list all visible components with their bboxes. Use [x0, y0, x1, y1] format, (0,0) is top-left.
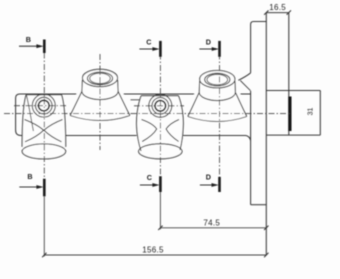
extension line from B: [43, 196, 45, 256]
boss U2 rim bottom arc: [199, 92, 235, 100]
svg-text:74.5: 74.5: [203, 218, 220, 227]
arrow C bottom: [140, 184, 154, 186]
arrow D bottom: [200, 184, 213, 186]
boss U1 rim bottom arc: [82, 91, 118, 99]
port P1 horizontal centerline: [14, 105, 66, 107]
main axis centerline: [4, 113, 290, 115]
outlet P2 left silhouette: [137, 96, 142, 151]
svg-text:156.5: 156.5: [142, 245, 164, 254]
boss U2 fill: [188, 77, 247, 123]
boss U2 flare left: [188, 92, 199, 116]
section line D: [219, 42, 221, 192]
outlet P2 bottom ellipse: [139, 144, 183, 159]
boss U1 inner rim ellipses: [87, 72, 112, 85]
boss U1 outer rim ellipse: [82, 69, 117, 86]
cylinder bottom edge: [266, 134, 320, 136]
boss U2 outer rim ellipse: [200, 71, 235, 88]
cylinder top edge: [266, 90, 320, 92]
arrow C top: [139, 48, 153, 50]
plate diagonal to boss U2: [240, 81, 250, 91]
dimension line 156.5: [44, 254, 266, 256]
boss U1 rim walls: [82, 80, 118, 91]
body bottom edge with fillet to plate: [22, 136, 251, 141]
section line C: [159, 42, 161, 192]
boss U1 centerline: [99, 54, 101, 150]
body left end cap: [16, 94, 24, 136]
section bar B bottom: [43, 179, 46, 197]
boss U1 flare left: [70, 91, 82, 115]
boss U1 fill: [70, 76, 130, 122]
arrow B bottom: [19, 186, 37, 188]
dimension line 74.5: [160, 227, 266, 229]
boss U2 rim walls: [199, 81, 235, 92]
outlet P2 fill: [137, 96, 184, 159]
outlet P1 bottom ellipse: [22, 144, 66, 159]
svg-text:B: B: [27, 172, 32, 181]
flange right edge: [288, 13, 290, 136]
boss U2 inner rim ellipses: [205, 73, 230, 86]
outlet P2 pedestal top: [141, 95, 178, 97]
outlet P1 pedestal face edge: [27, 96, 34, 132]
svg-text:D: D: [206, 38, 211, 47]
arrow B top: [19, 45, 37, 47]
arrow D top: [199, 48, 213, 50]
svg-text:B: B: [26, 35, 31, 44]
outlet P2 port circles: [149, 94, 172, 117]
cylinder seal thick bar: [288, 97, 291, 132]
outlet P1 port circles: [32, 94, 55, 117]
section bar B top: [43, 40, 46, 54]
plate fillet to boss U2: [238, 73, 250, 80]
flange top edge / 16.5 dim line: [266, 12, 289, 14]
svg-text:31: 31: [307, 108, 314, 116]
boss U1 base fillet arc: [70, 116, 130, 121]
port P2 horizontal centerline: [134, 105, 184, 107]
plate top edge: [251, 22, 267, 25]
svg-text:C: C: [146, 38, 151, 47]
svg-text:D: D: [206, 173, 211, 182]
section bar C bottom: [159, 176, 162, 192]
outlet P1 pedestal top: [26, 94, 61, 96]
outlet P2 waist curves: [142, 120, 157, 142]
outlet P1 fill: [22, 95, 66, 159]
boss U2 flare right: [235, 92, 246, 116]
plate bottom edge: [251, 204, 267, 206]
rib edge left of outlet P2: [131, 99, 141, 101]
outlet P2 right silhouette: [178, 96, 183, 150]
boss U1 flare right: [118, 91, 130, 115]
boss U2 base fillet arc: [188, 117, 247, 122]
cylinder right edge: [319, 91, 321, 136]
section bar D bottom: [218, 177, 221, 192]
section bar C top: [159, 41, 162, 57]
svg-text:C: C: [147, 173, 152, 182]
outlet P1 right silhouette: [62, 95, 66, 147]
plate left edge upper: [250, 25, 252, 73]
extension line from C: [159, 192, 161, 229]
plate left edge lower: [250, 91, 252, 205]
outlet P1 left silhouette: [22, 95, 26, 147]
flange left edge: [265, 13, 267, 256]
body top edge: [20, 93, 251, 95]
outlet P1 waist curves: [25, 120, 44, 142]
dimension ticks 16.5: [264, 10, 291, 14]
svg-text:16.5: 16.5: [269, 3, 286, 12]
section bar D top: [218, 41, 221, 57]
section line B: [43, 41, 45, 196]
